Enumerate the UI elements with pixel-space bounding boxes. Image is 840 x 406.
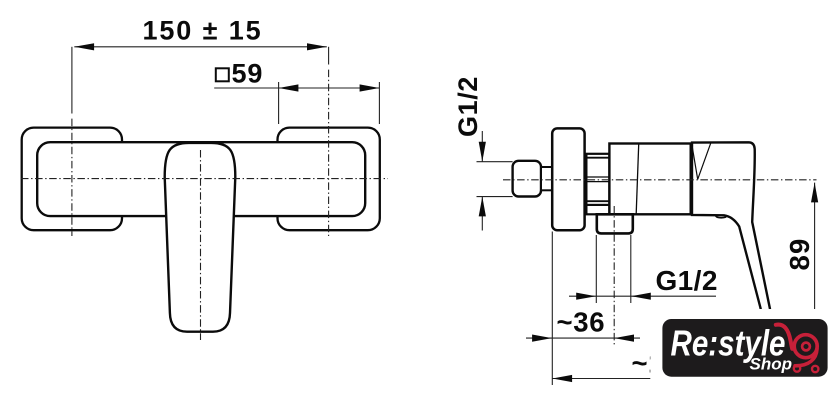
centerline right block vertical [328,47,330,65]
white mask under logo [650,309,840,406]
logo plate [662,319,827,377]
outlet spout [597,214,633,233]
lever handle front [165,143,236,332]
hex nut [586,154,609,205]
lever handle side [692,142,774,330]
supply pipe stub [477,161,513,163]
handle neck lines [692,147,697,179]
dimension 89 [784,183,818,318]
dimension ~36 [526,232,640,386]
inlet fitting nut [513,161,541,197]
wall flange [552,128,584,230]
svg-text:~36: ~36 [557,307,606,338]
right mounting block [278,128,380,231]
@ ring [794,335,817,358]
dimension ~160 overall (partly hidden) [552,347,679,382]
centerline horizontal (side) [503,179,817,181]
svg-text:89: 89 [784,238,815,271]
centerline horizontal (front) [21,178,388,180]
dimension square-59 [214,59,379,125]
centerline left block vertical [71,47,73,114]
faucet body front [37,142,365,216]
wheels [794,365,800,371]
step under nut [586,205,609,214]
svg-text:Shop: Shop [750,355,793,374]
dimension G1/2 outlet [569,235,718,303]
cart handle [776,325,792,349]
@ inner a [802,343,810,351]
svg-text:59: 59 [232,59,264,89]
svg-text:G1/2: G1/2 [453,76,483,137]
centerline outlet vertical [613,206,615,345]
centerline handle vertical [200,150,202,340]
dimension G1/2 inlet [453,76,486,230]
valve body side [609,144,690,215]
underside screw bump [716,216,727,218]
cartridge seam [636,145,639,214]
svg-text:G1/2: G1/2 [656,265,718,296]
@ tail [795,349,817,366]
left mounting block [22,128,122,231]
threaded section [541,167,553,190]
svg-text:150 ± 15: 150 ± 15 [142,16,262,46]
dimension 150 +/- 15 [74,16,326,51]
